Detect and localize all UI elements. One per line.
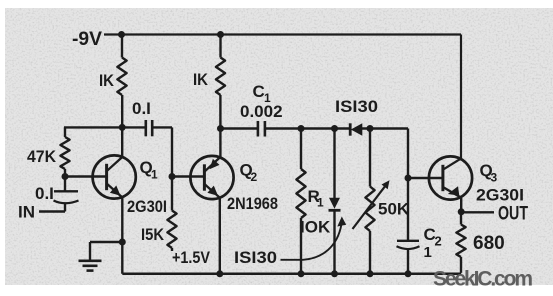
svg-text:1: 1 bbox=[151, 168, 158, 182]
svg-text:2G30I: 2G30I bbox=[127, 197, 167, 216]
svg-text:IK: IK bbox=[193, 70, 209, 89]
svg-text:+1.5V: +1.5V bbox=[172, 248, 211, 267]
svg-text:2: 2 bbox=[435, 234, 442, 249]
svg-text:680: 680 bbox=[473, 233, 505, 254]
svg-text:IOK: IOK bbox=[300, 218, 331, 237]
svg-text:ISI30: ISI30 bbox=[335, 97, 378, 116]
svg-text:-9V: -9V bbox=[72, 29, 102, 50]
svg-text:C: C bbox=[253, 82, 265, 101]
svg-text:3: 3 bbox=[491, 171, 498, 185]
svg-text:IN: IN bbox=[18, 203, 35, 222]
svg-text:I5K: I5K bbox=[141, 225, 165, 244]
svg-text:0.I: 0.I bbox=[35, 184, 54, 203]
svg-text:50K: 50K bbox=[378, 200, 410, 219]
svg-text:1: 1 bbox=[317, 196, 324, 210]
svg-text:OUT: OUT bbox=[498, 204, 528, 225]
svg-text:0.I: 0.I bbox=[132, 99, 151, 118]
svg-text:ISI30: ISI30 bbox=[234, 248, 277, 267]
svg-text:2N1968: 2N1968 bbox=[227, 194, 278, 213]
svg-text:47K: 47K bbox=[27, 147, 57, 166]
svg-text:SeekIC.com: SeekIC.com bbox=[433, 268, 533, 291]
svg-text:2: 2 bbox=[251, 170, 258, 184]
svg-text:IK: IK bbox=[99, 71, 115, 90]
svg-text:0.002: 0.002 bbox=[240, 102, 283, 121]
svg-text:2G30I: 2G30I bbox=[476, 186, 524, 205]
svg-text:1: 1 bbox=[424, 244, 432, 261]
